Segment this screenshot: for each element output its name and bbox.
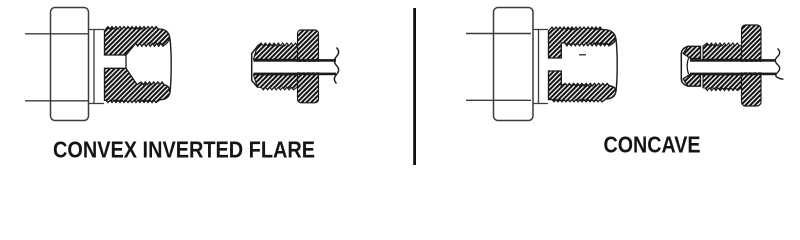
- tube nut hex head, hatched (right male): [742, 25, 762, 106]
- neck between nut and body (right): [533, 30, 548, 104]
- flared tube end (left male): [252, 46, 258, 87]
- tube walls (right male): [690, 59, 776, 62]
- tube walls (left male): [254, 59, 337, 62]
- hex nut (left female): [51, 8, 89, 121]
- tube nut threaded shank upper, hatched (left male): [254, 43, 298, 59]
- tube nut threaded shank lower, hatched (right male): [703, 75, 742, 91]
- neck between nut and body (left): [89, 30, 105, 104]
- flare cone upper wedge, hatched (right male): [683, 46, 700, 58]
- tube stub lines (right female): [466, 34, 531, 101]
- tube bore gap through hex head (right): [741, 62, 763, 72]
- fitting body upper section, hatched (right): [549, 27, 617, 58]
- fitting body lower section, hatched (left): [105, 68, 171, 102]
- hex nut (right female): [494, 8, 534, 121]
- tube stub lines (left female): [25, 34, 88, 101]
- fitting body upper section, hatched (left): [105, 27, 171, 55]
- body right end outline (right): [616, 40, 617, 92]
- flare mouth inner edge: [687, 58, 688, 74]
- fitting body lower section, hatched (right): [549, 71, 617, 102]
- tube break squiggle (left male): [334, 48, 338, 84]
- concave seat detail dash: [579, 54, 586, 56]
- tube nut hex head, hatched (left male): [298, 30, 319, 103]
- tube nut threaded shank upper, hatched (right male): [703, 43, 742, 59]
- convex seat face: [125, 55, 127, 68]
- svg-text:CONCAVE: CONCAVE: [604, 132, 701, 158]
- flare cone lower wedge, hatched (right male): [683, 74, 700, 86]
- flare cone left face outline: [681, 46, 688, 86]
- tube break squiggle (right male): [775, 49, 783, 80]
- vertical divider line: [413, 8, 416, 165]
- body right end outline (left): [170, 39, 171, 92]
- svg-text:CONVEX INVERTED FLARE: CONVEX INVERTED FLARE: [53, 137, 315, 163]
- tube nut threaded shank lower, hatched (left male): [254, 75, 298, 90]
- tube bore gap through hex head: [297, 62, 320, 72]
